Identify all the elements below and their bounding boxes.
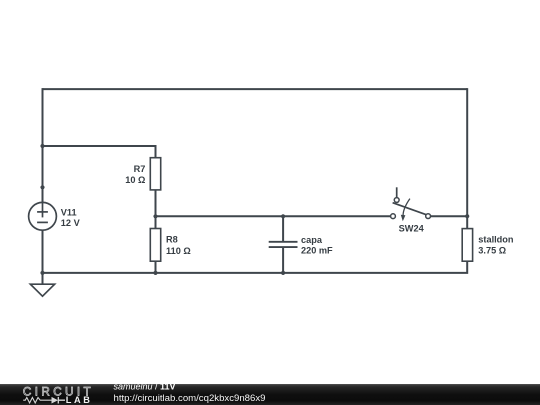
svg-text:stalldon: stalldon — [478, 235, 514, 245]
wire R8 top stub — [155, 216, 157, 228]
wire right rail — [466, 88, 468, 229]
wire R8 bottom stub — [155, 261, 157, 273]
resistor stalldon — [462, 229, 472, 262]
switch SW24 contacts — [391, 198, 431, 219]
node dot capa top — [281, 214, 285, 218]
node dot V11 top terminal — [40, 185, 44, 189]
wire ground stub — [42, 273, 44, 284]
svg-text:V11: V11 — [61, 207, 77, 217]
svg-text:10 Ω: 10 Ω — [125, 175, 145, 185]
voltage source V11 — [29, 202, 57, 230]
svg-text:R7: R7 — [134, 164, 146, 174]
svg-text:R8: R8 — [166, 235, 178, 245]
footer bar — [0, 384, 540, 405]
wire junction A to R7 top — [43, 146, 156, 158]
wire V11 bottom — [42, 230, 44, 273]
svg-text:SW24: SW24 — [399, 224, 425, 234]
label R8 — [166, 235, 191, 256]
wire top rail — [43, 88, 468, 90]
label V11 — [61, 207, 81, 228]
svg-text:220 mF: 220 mF — [301, 246, 333, 256]
label R7 — [125, 164, 145, 185]
ground — [30, 284, 54, 296]
svg-text:capa: capa — [301, 235, 323, 245]
node dot R8 bottom — [153, 271, 157, 275]
svg-text:samuelnu / 11V: samuelnu / 11V — [114, 382, 176, 392]
wire middle rail right (switch to right rail) — [431, 215, 468, 217]
svg-text:LAB: LAB — [66, 395, 93, 405]
node dot capa bottom — [281, 271, 285, 275]
node dot switch-right rail — [465, 214, 469, 218]
svg-text:3.75 Ω: 3.75 Ω — [478, 246, 506, 256]
logo resistor zigzag — [23, 398, 51, 403]
switch SW24 — [393, 187, 426, 215]
node dot R7/R8 mid — [153, 214, 157, 218]
label capa — [301, 235, 333, 256]
node dot ground junction — [40, 271, 44, 275]
svg-text:http://circuitlab.com/cq2kbxc9: http://circuitlab.com/cq2kbxc9n86x9 — [114, 393, 266, 404]
logo diode — [52, 397, 59, 404]
switch SW24 arrowhead — [401, 215, 406, 222]
resistor R8 — [150, 229, 160, 262]
svg-text:110 Ω: 110 Ω — [166, 246, 191, 256]
junction node dots — [40, 144, 469, 275]
svg-text:12 V: 12 V — [61, 218, 81, 228]
node dot left-R7 — [40, 144, 44, 148]
wire capacitor top stub — [282, 216, 284, 241]
resistor R7 — [150, 158, 160, 190]
wire capacitor bottom stub — [282, 248, 284, 273]
wire bottom rail — [43, 261, 468, 273]
wire left rail upper — [42, 89, 43, 202]
wire R7 bottom to node B — [155, 190, 157, 216]
label stalldon — [478, 235, 514, 256]
wire middle rail left (node B to switch) — [156, 215, 391, 217]
capacitor capa — [269, 242, 298, 247]
